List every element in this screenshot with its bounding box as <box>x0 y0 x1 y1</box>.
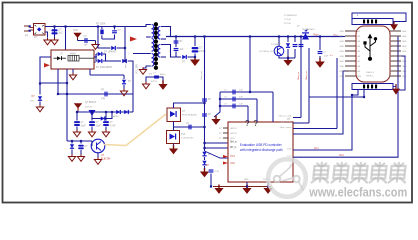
wire <box>294 49 296 58</box>
svg-text:Vbus: Vbus <box>313 34 319 37</box>
U1 internal IC block <box>68 55 79 61</box>
wire <box>39 102 41 106</box>
zener D8 <box>101 116 106 120</box>
svg-text:CC1: CC1 <box>230 155 235 158</box>
ground (C5) <box>88 130 95 137</box>
connector J2 left pins <box>345 31 356 76</box>
svg-text:47K: 47K <box>101 98 106 101</box>
wire Y-cap bracket <box>146 77 163 83</box>
junction <box>287 57 289 59</box>
wire <box>94 61 96 63</box>
capacitor C5 <box>89 121 95 126</box>
wire x309 vertical <box>308 48 310 123</box>
capacitor C16 <box>299 44 304 47</box>
power flag VCC primary <box>74 33 80 40</box>
wire caprow1 <box>220 91 273 93</box>
wire U1 internal out <box>79 57 94 59</box>
connector J2 USB type-C body <box>356 26 390 82</box>
wire <box>95 41 97 44</box>
capacitor C14 <box>293 44 298 47</box>
wire sec2 route <box>166 45 176 58</box>
wire <box>91 127 93 131</box>
pin arrow U1 input <box>44 63 50 68</box>
junction <box>194 56 196 58</box>
wire U2 left pin stub <box>223 132 228 134</box>
svg-text:USB 3.1: USB 3.1 <box>366 72 375 74</box>
wire <box>176 56 181 58</box>
wire y141 rail <box>67 140 92 142</box>
svg-text:GND: GND <box>340 56 345 58</box>
svg-text:Vbus_in_sink: Vbus_in_sink <box>278 116 292 118</box>
wire <box>319 37 321 51</box>
wire <box>76 127 78 131</box>
svg-text:SOT23: SOT23 <box>85 107 93 109</box>
wire U1 pin3 down <box>72 69 74 74</box>
zener D15 <box>286 43 290 48</box>
svg-text:with integrated discharge path: with integrated discharge path <box>240 148 283 152</box>
svg-text:1uF: 1uF <box>239 104 243 106</box>
wire <box>95 54 97 61</box>
wire vcc aux rail <box>76 111 133 113</box>
junction <box>203 102 205 104</box>
wire T1 pin1 <box>125 25 151 27</box>
wire <box>175 37 177 48</box>
op-amp U1 controller box <box>51 50 94 69</box>
wire caprow3 <box>220 105 248 107</box>
wire AC+ rail <box>45 26 98 28</box>
wire <box>114 35 116 39</box>
wire aux rect to vcc rail <box>128 61 133 112</box>
wire Q1 emitter <box>92 112 112 119</box>
svg-text:Vout_sns: Vout_sns <box>200 70 203 80</box>
junction <box>246 185 248 187</box>
wire Q2 out <box>279 56 288 58</box>
svg-text:22uF: 22uF <box>81 126 87 128</box>
diode D9 <box>116 110 121 114</box>
junction <box>351 94 353 96</box>
wire <box>95 54 97 57</box>
wire <box>91 112 93 121</box>
ground (bridge return) <box>44 38 51 45</box>
junction <box>203 147 205 149</box>
svg-text:D? MM3Z: D? MM3Z <box>271 44 281 46</box>
svg-text:Vbus_in: Vbus_in <box>298 71 300 80</box>
svg-text:1uF: 1uF <box>180 49 185 51</box>
svg-text:SDNPW3020: SDNPW3020 <box>302 29 315 31</box>
wire <box>105 112 107 121</box>
junction <box>57 93 59 95</box>
svg-text:GND: GND <box>340 51 345 53</box>
resistor R5 <box>202 98 207 101</box>
wire to C1 <box>54 27 56 39</box>
transistor Q1 BC817 <box>89 110 96 116</box>
wire <box>101 27 103 30</box>
wire Vbus rail <box>166 36 342 38</box>
wire <box>210 174 212 187</box>
wire U2 pin Vbus_sense <box>293 128 337 130</box>
svg-text:D?: D? <box>34 35 38 39</box>
wire <box>91 143 93 146</box>
wire x67 vertical <box>66 83 68 141</box>
wire x301 vertical <box>300 37 302 118</box>
zener D14 <box>202 161 206 166</box>
wire <box>71 150 73 156</box>
svg-text:EL817M-A(TA): EL817M-A(TA) <box>182 114 197 117</box>
junction <box>194 35 196 37</box>
svg-text:102/Y1: 102/Y1 <box>151 81 158 83</box>
ground (C4) <box>73 130 80 137</box>
wire shield <box>352 13 406 22</box>
ground (C9) <box>190 56 200 66</box>
zener D3 <box>38 96 42 101</box>
junction <box>210 185 212 187</box>
wire Vbus to capbank <box>249 37 251 93</box>
svg-text:CC2: CC2 <box>230 162 235 165</box>
svg-text:Vbus_in_src: Vbus_in_src <box>279 120 292 123</box>
wire T1 sec pin top <box>161 27 171 37</box>
wire <box>76 112 78 121</box>
svg-text:7C4148 G4T: 7C4148 G4T <box>181 138 194 140</box>
capacitor C11 <box>232 90 235 95</box>
svg-text:www.elecfans.com: www.elecfans.com <box>308 185 407 200</box>
svg-text:T1A: T1A <box>181 133 186 136</box>
ground (capbank) <box>211 116 220 125</box>
ground (bus2) <box>242 185 251 194</box>
junction <box>219 98 221 100</box>
diode D12 <box>182 55 187 59</box>
wire U2 gnd pin2 <box>267 182 269 187</box>
svg-text:GND: GND <box>402 46 407 48</box>
ground (U1) <box>69 73 76 80</box>
resistor R7 <box>209 169 214 172</box>
power flag VCC aux <box>75 104 81 112</box>
diode D4 <box>98 52 103 56</box>
wire <box>101 35 103 39</box>
ground (secondary side) <box>158 81 167 90</box>
wire x343 CC path <box>293 71 349 134</box>
wire T1 sec pin2 <box>161 38 166 40</box>
wire <box>94 56 97 58</box>
diode D6 <box>122 59 127 63</box>
zener D13 <box>202 152 206 157</box>
ground (R4) <box>169 145 178 154</box>
wire CC2 <box>293 37 398 158</box>
inductor L1 <box>302 32 309 39</box>
wire U2 gnd pin <box>246 182 248 187</box>
svg-text:GND: GND <box>340 71 345 73</box>
wire snubber to rectifier node <box>124 27 126 63</box>
capacitor C8 <box>174 48 179 51</box>
svg-text:Q? PMOS_SOT23: Q? PMOS_SOT23 <box>259 51 278 53</box>
junction <box>91 111 93 113</box>
transformer T1 primary2 winding <box>152 39 154 52</box>
wire T1 pin5 <box>133 53 151 55</box>
connector P1 AC plug <box>24 26 33 31</box>
svg-text:Evaluation USB PD controller: Evaluation USB PD controller <box>240 143 283 147</box>
wire to U1 top <box>65 27 67 51</box>
svg-text:GND: GND <box>402 51 407 53</box>
junction <box>76 111 78 113</box>
ground (shield) <box>390 22 398 31</box>
svg-text:D? MM3Z9V2: D? MM3Z9V2 <box>284 15 298 17</box>
capacitor C6 <box>103 121 109 126</box>
junction <box>97 25 99 27</box>
svg-text:TYPE-C: TYPE-C <box>366 76 374 78</box>
transformer T1 primary winding <box>152 25 154 38</box>
svg-text:22uF: 22uF <box>96 126 102 128</box>
junction <box>175 35 177 37</box>
wire <box>94 56 96 58</box>
svg-text:1uF: 1uF <box>239 90 243 92</box>
junction <box>294 35 296 37</box>
svg-text:GND: GND <box>340 41 345 43</box>
transformer T1 secondary2 winding <box>158 45 160 58</box>
wire U1 pin4 down <box>89 69 91 75</box>
wire <box>114 27 116 30</box>
svg-text:GND: GND <box>340 46 345 48</box>
svg-text:VDD: VDD <box>230 138 235 140</box>
svg-text:VCC: VCC <box>73 29 78 32</box>
wire <box>105 127 107 131</box>
junction <box>363 96 365 98</box>
transformer T1 aux winding <box>152 54 154 67</box>
junction <box>66 93 68 95</box>
junction <box>64 25 66 27</box>
wire ground bus <box>213 186 271 188</box>
svg-text:R? 150K: R? 150K <box>96 23 106 26</box>
junction <box>71 140 73 142</box>
wire <box>71 141 73 144</box>
resistor R6 <box>202 113 207 116</box>
wire U1 pin to feedback rail <box>57 69 59 94</box>
transformer T1 secondary winding <box>158 27 160 40</box>
capacitor C2 <box>84 38 87 43</box>
optocoupler U3 <box>91 139 105 153</box>
ground (C1) <box>51 38 58 45</box>
capacitor C10 <box>188 125 191 130</box>
wire U2 pin Vbus_src <box>293 122 309 124</box>
ground (D3) <box>36 105 43 112</box>
wire snubber top <box>98 26 125 28</box>
wire zener leg <box>40 57 51 95</box>
wire <box>174 126 181 128</box>
junction <box>203 142 205 144</box>
U1 internal diode <box>57 56 62 60</box>
resistor R4 (in box) <box>167 131 180 144</box>
ground (T1 aux) <box>139 67 146 74</box>
svg-text:D? UF4007: D? UF4007 <box>104 51 117 54</box>
wire <box>173 144 175 148</box>
wire diode pair join <box>103 54 106 61</box>
watermark logo circle <box>268 159 306 197</box>
wire x204 vertical <box>204 37 206 144</box>
svg-text:4N60: 4N60 <box>70 53 76 56</box>
wire opto2 anode <box>174 103 205 108</box>
svg-text:Vbus_src: Vbus_src <box>305 70 308 80</box>
svg-text:GPIO2: GPIO2 <box>230 133 237 135</box>
capacitor C17 (Y-cap) <box>154 75 159 78</box>
wire to D6 <box>106 60 122 62</box>
wire T1 sec2 bottom <box>161 56 166 58</box>
wire <box>123 85 125 90</box>
ground (C2) <box>92 42 99 49</box>
svg-text:P?: P? <box>25 34 29 38</box>
junction <box>203 35 205 37</box>
transformer T1 core dots <box>154 22 158 70</box>
ground (D14) <box>200 168 209 177</box>
junction <box>267 185 269 187</box>
resistor R2 <box>104 92 107 97</box>
wire y83 link <box>40 82 67 84</box>
signal highlight (yellow net) <box>104 114 166 146</box>
resistor R3 <box>174 40 179 43</box>
junction <box>66 82 68 84</box>
wire <box>319 56 321 60</box>
svg-text:GND: GND <box>402 36 407 38</box>
wire <box>278 37 280 47</box>
junction <box>219 105 221 107</box>
svg-text:R? 10K: R? 10K <box>284 23 292 25</box>
wire J2 right loop <box>398 56 405 90</box>
capacitor C15 <box>318 51 323 54</box>
capacitor C4 <box>74 121 80 126</box>
junction <box>319 35 321 37</box>
ground (C15) <box>315 58 325 68</box>
wire <box>123 75 125 79</box>
wire U1 pin2 down <box>66 69 68 83</box>
junction <box>124 60 126 62</box>
junction <box>80 140 82 142</box>
svg-text:GND: GND <box>244 179 249 181</box>
wire <box>95 54 97 60</box>
svg-text:GND: GND <box>340 76 345 78</box>
junction <box>249 91 251 93</box>
junction <box>105 111 107 113</box>
wire T1 sec2 top <box>161 44 166 46</box>
wire <box>287 49 289 58</box>
svg-text:10uF: 10uF <box>324 56 330 58</box>
svg-text:Q? BC817: Q? BC817 <box>85 101 97 104</box>
wire T1 pin2 <box>146 36 151 38</box>
ground (D11) <box>68 154 75 161</box>
junction <box>113 25 115 27</box>
wire <box>96 55 98 58</box>
svg-text:BAT54: BAT54 <box>112 115 119 118</box>
wire <box>91 141 93 143</box>
wire caprow1 drop <box>272 92 274 122</box>
wire feedback rail <box>58 93 133 95</box>
svg-text:CC2: CC2 <box>339 155 344 157</box>
capacitor C9 (bulk) <box>192 47 199 53</box>
wire <box>194 54 196 59</box>
svg-text:DM_in: DM_in <box>230 142 237 144</box>
capacitor C13 <box>232 104 235 109</box>
wire sbu <box>309 90 364 98</box>
connector J2 shield bottom tab <box>352 84 393 90</box>
svg-text:4.7uF: 4.7uF <box>110 126 116 128</box>
svg-text:VCC_PRI: VCC_PRI <box>137 64 139 74</box>
wire <box>393 86 396 88</box>
junction <box>39 82 41 84</box>
wire DATA+ to U2 <box>205 142 229 144</box>
ground (U3) <box>94 157 101 164</box>
ground (cluster) <box>283 57 292 66</box>
wire caprow3 drop <box>247 106 249 122</box>
ground (bus1) <box>214 185 223 194</box>
diode D2 UF4007 <box>111 46 116 50</box>
wire <box>77 40 79 41</box>
svg-text:GND: GND <box>340 61 345 63</box>
svg-text:GND: GND <box>402 31 407 33</box>
wire <box>194 37 196 47</box>
wire <box>97 153 99 158</box>
junction <box>53 25 55 27</box>
wire caprow2 drop <box>256 99 258 122</box>
wire tl431 link <box>181 126 205 128</box>
svg-text:1uF: 1uF <box>239 97 243 99</box>
watermark chinese text 电子发烧友 <box>312 163 407 183</box>
wire <box>294 37 296 43</box>
wire vcc row <box>78 40 96 42</box>
wire <box>288 57 295 59</box>
wire snubber mid <box>102 35 115 40</box>
svg-text:EE10: EE10 <box>160 74 166 76</box>
wire U2 pin Vbus_in <box>293 117 301 119</box>
svg-text:D? 1N4148WS: D? 1N4148WS <box>96 66 112 69</box>
svg-text:GND: GND <box>340 66 345 68</box>
wire <box>124 61 126 62</box>
capacitor C3 <box>112 30 117 33</box>
bridge rectifier BR1 <box>34 24 46 36</box>
diode D5 <box>98 59 103 63</box>
svg-text:2n2: 2n2 <box>58 31 63 35</box>
wire <box>96 53 97 55</box>
zener D7 BZT52C18 <box>122 80 126 85</box>
wire CC link diagonal <box>205 151 229 158</box>
ground (C6) <box>102 130 109 137</box>
junction <box>203 126 205 128</box>
wire <box>80 141 82 144</box>
svg-text:Vbus_sense: Vbus_sense <box>279 127 292 129</box>
wire opto2 cathode <box>173 122 175 131</box>
wire snubber left <box>98 27 102 49</box>
op-amp U2 USB PD controller <box>228 122 293 182</box>
svg-text:CC1: CC1 <box>314 148 319 150</box>
wire <box>96 60 97 62</box>
wire U2 left pin stub <box>223 137 228 139</box>
junction <box>300 35 302 37</box>
resistor R1 (snubber) <box>100 30 103 35</box>
junction <box>287 35 289 37</box>
svg-text:?: ? <box>254 119 259 128</box>
ground (bus3) <box>263 185 272 194</box>
primary marker arrow <box>130 37 137 42</box>
capacitor C12 <box>232 97 235 102</box>
wire <box>188 56 196 58</box>
ground (J2 bottom) <box>392 84 400 95</box>
svg-text:16V: 16V <box>30 101 34 103</box>
connector J2 shield top tab <box>352 19 393 25</box>
junction <box>278 35 280 37</box>
svg-text:1uF: 1uF <box>84 44 89 47</box>
svg-text:GPIO1: GPIO1 <box>230 128 237 130</box>
wire <box>117 47 126 49</box>
ground (primary side) <box>142 82 149 89</box>
zener D11 <box>70 144 74 149</box>
wire bridge negative <box>45 32 48 38</box>
junction <box>124 47 126 49</box>
svg-text:GND: GND <box>402 41 407 43</box>
